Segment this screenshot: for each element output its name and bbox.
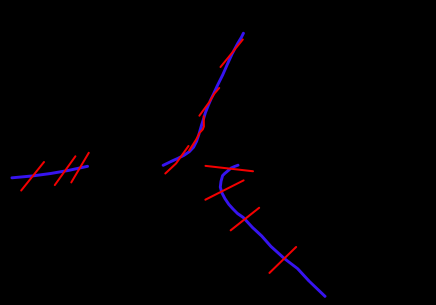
red hatch S1 on left segment [21, 162, 44, 191]
red dash 1b riding the elbow of rising curve [189, 116, 204, 150]
red dash 1a (big slash) along rising curve [165, 146, 188, 174]
red hatch S2 on left segment [55, 156, 76, 185]
red tick H2 on hook curve [205, 180, 243, 199]
red tick H1 on hook curve [206, 166, 254, 171]
red tick T2 on hook curve [270, 247, 297, 273]
red dash 2 along rising curve [199, 88, 219, 116]
blue hook curve [220, 165, 325, 296]
red tick T1 on hook curve [231, 208, 259, 231]
red hatch S3 on left segment [71, 153, 89, 183]
blue left segment [12, 166, 88, 178]
red dash 3 along rising curve [221, 40, 243, 68]
blue rising curve [163, 33, 243, 165]
